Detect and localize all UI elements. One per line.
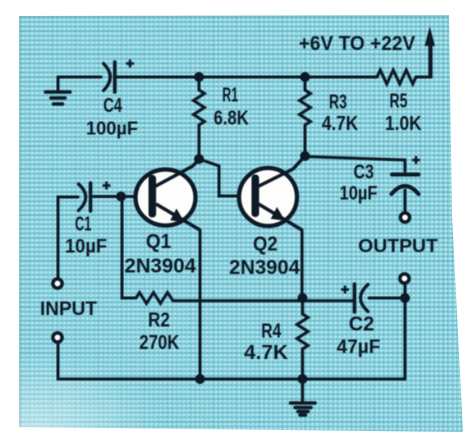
svg-text:100µF: 100µF — [86, 117, 138, 138]
svg-text:R4: R4 — [261, 320, 281, 342]
svg-text:R3: R3 — [329, 90, 347, 113]
svg-text:R1: R1 — [222, 83, 238, 106]
svg-text:4.7K: 4.7K — [244, 342, 288, 364]
svg-text:R5: R5 — [390, 89, 408, 112]
svg-text:Q1: Q1 — [146, 231, 171, 254]
svg-text:10µF: 10µF — [65, 235, 107, 256]
svg-text:2N3904: 2N3904 — [124, 255, 196, 277]
svg-text:6.8K: 6.8K — [214, 106, 250, 129]
svg-text:10µF: 10µF — [340, 182, 378, 203]
svg-text:R2: R2 — [148, 308, 170, 331]
svg-text:1.0K: 1.0K — [385, 112, 422, 134]
svg-text:C4: C4 — [103, 94, 122, 117]
svg-text:4.7K: 4.7K — [322, 112, 359, 134]
svg-text:270K: 270K — [139, 331, 180, 354]
svg-text:+6V TO +22V: +6V TO +22V — [299, 33, 415, 55]
svg-text:C1: C1 — [75, 213, 91, 236]
svg-text:C3: C3 — [353, 161, 373, 183]
svg-text:47µF: 47µF — [337, 337, 381, 358]
svg-text:INPUT: INPUT — [40, 299, 97, 320]
svg-text:2N3904: 2N3904 — [229, 257, 301, 279]
svg-text:C2: C2 — [349, 314, 375, 336]
svg-text:OUTPUT: OUTPUT — [358, 236, 438, 256]
svg-text:Q2: Q2 — [253, 234, 278, 256]
